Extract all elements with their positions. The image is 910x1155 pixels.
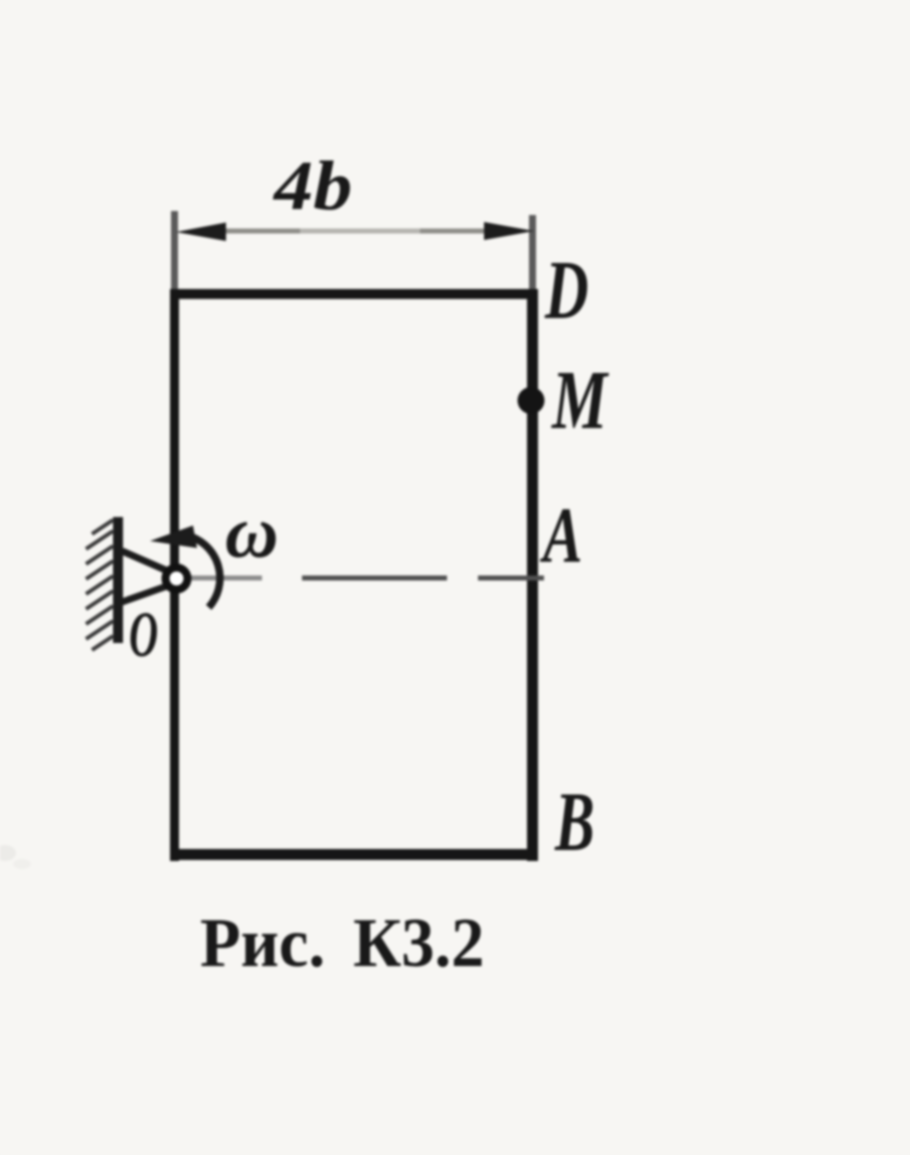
svg-text:ω: ω xyxy=(225,492,279,574)
frame bottom side xyxy=(170,849,538,860)
rotation arc xyxy=(187,535,220,607)
rotation arrowhead xyxy=(150,526,197,549)
frame left side (extension above top) xyxy=(171,211,178,295)
pivot pin O xyxy=(166,568,188,590)
support triangle upper edge xyxy=(122,551,170,572)
svg-text:M: M xyxy=(551,353,609,446)
dashed axis segment 3 xyxy=(478,576,544,581)
support triangle lower edge xyxy=(122,585,170,602)
frame left side xyxy=(170,291,179,861)
svg-text:4b: 4b xyxy=(272,148,352,225)
svg-text:D: D xyxy=(544,243,589,336)
dimension arrow right xyxy=(484,222,534,240)
svg-text:O: O xyxy=(129,598,158,670)
frame right side xyxy=(527,291,538,861)
point M dot xyxy=(518,387,545,414)
dashed axis segment 2 xyxy=(302,576,447,581)
dashed axis segment 1 xyxy=(190,576,262,581)
dimension arrow left xyxy=(176,223,226,242)
svg-text:Рис. К3.2: Рис. К3.2 xyxy=(200,903,484,981)
svg-text:B: B xyxy=(554,775,594,869)
support hatching xyxy=(86,520,113,650)
frame top side xyxy=(170,289,538,299)
support wall xyxy=(113,517,123,643)
left edge scan artifact xyxy=(0,845,31,869)
dimension shaft xyxy=(226,229,488,234)
svg-text:A: A xyxy=(540,493,583,580)
frame right side (extension above top) xyxy=(529,215,536,295)
